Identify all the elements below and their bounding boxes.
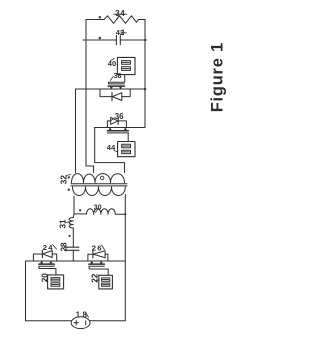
svg-text:22: 22 [91, 273, 100, 283]
label 36 [110, 112, 124, 121]
label 44 [107, 143, 118, 152]
diode D38 (body diode) [100, 89, 130, 101]
wire: input bottom right [90, 320, 125, 322]
diode D24 (body diode) [33, 250, 56, 261]
wire: secondary right-end riser [95, 128, 125, 173]
wire: between L31 and C28 [72, 228, 74, 247]
wire: primary right rail (down to source) [124, 195, 126, 321]
node dot (cap wire) [99, 37, 102, 40]
capacitor C28 (resonant) [65, 247, 79, 250]
label 40 [108, 59, 116, 69]
source V18 (DC input) [71, 317, 90, 329]
transistor Q24 (high side) [39, 261, 56, 275]
transformer core [71, 184, 127, 186]
wire: MOSFET36 row [95, 127, 145, 129]
node dot (top wire) [99, 16, 102, 19]
svg-text:40: 40 [108, 59, 116, 68]
wire: Lm row left [74, 213, 87, 215]
box U20 (gate driver) [48, 275, 64, 289]
box U22 (gate driver) [99, 275, 113, 289]
wire: resonant branch upper [72, 214, 75, 218]
svg-text:26: 26 [92, 244, 103, 253]
wire: output top wire left segment [86, 19, 104, 21]
wire: secondary left end lead [75, 89, 77, 173]
svg-text:24: 24 [43, 243, 54, 252]
label 20 [40, 273, 49, 283]
svg-text:20: 20 [40, 273, 49, 283]
label 32 [60, 175, 71, 185]
wire: half-bridge row [26, 260, 126, 262]
diode D36 (body diode) [107, 117, 126, 127]
junction dot rail 145 at cap wire [144, 39, 146, 41]
label 31 [59, 219, 70, 229]
inductor L31 (series resonant) [69, 218, 73, 229]
label 26 [92, 244, 105, 253]
polarity dot L31 [69, 235, 71, 237]
wire: cap-42 wire right segment [120, 39, 146, 41]
transformer T32 primary winding [73, 187, 126, 196]
wire: C28 to half-bridge midpoint [72, 250, 74, 261]
label 34 [114, 9, 127, 19]
label 30 [94, 205, 102, 213]
wire: primary left lead [73, 196, 75, 214]
svg-text:Figure 1: Figure 1 [209, 42, 227, 112]
polarity dot secondary [68, 176, 70, 178]
svg-text:36: 36 [115, 112, 124, 121]
polarity dot primary [68, 189, 70, 191]
svg-text:34: 34 [115, 9, 125, 18]
svg-text:32: 32 [60, 175, 69, 185]
transistor Q36 (sync rectifier) [107, 128, 128, 142]
label 38 [110, 73, 121, 81]
inductor L30 (magnetizing) [87, 209, 116, 215]
wire: Lm row right [115, 213, 125, 215]
label 22 [91, 273, 100, 283]
label 42 [116, 28, 127, 37]
box U44 (gate driver) [118, 142, 135, 157]
polarity circle (open) secondary right half [101, 176, 104, 179]
wire: right output rail [144, 20, 146, 128]
junction dot Lm/primary right [124, 213, 126, 215]
polarity dot L30 [79, 209, 81, 211]
wire: cap-42 wire left segment [83, 39, 116, 41]
transistor Q38 (sync rectifier) [108, 75, 124, 89]
label 18 [76, 311, 89, 320]
wire: input left rail [26, 261, 72, 321]
wire: left output rail (center-tap rail) [86, 20, 94, 173]
svg-text:31: 31 [59, 219, 68, 229]
capacitor C42 plates [116, 35, 120, 45]
box U40 (gate driver) [117, 57, 135, 74]
svg-text:30: 30 [94, 205, 102, 212]
junction dot rail145 / wire38 [144, 88, 147, 91]
diode D26 (body diode) [88, 251, 108, 261]
transistor Q26 (low side) [89, 261, 108, 275]
transformer T32 secondary winding [72, 174, 125, 183]
svg-text:28: 28 [59, 242, 68, 252]
label 24 [43, 243, 57, 252]
wire: MOSFET38 row [76, 88, 146, 90]
wire: output top wire right segment [139, 19, 146, 21]
resistor 34 (load) zigzag [104, 16, 139, 23]
label 28 [59, 242, 68, 252]
